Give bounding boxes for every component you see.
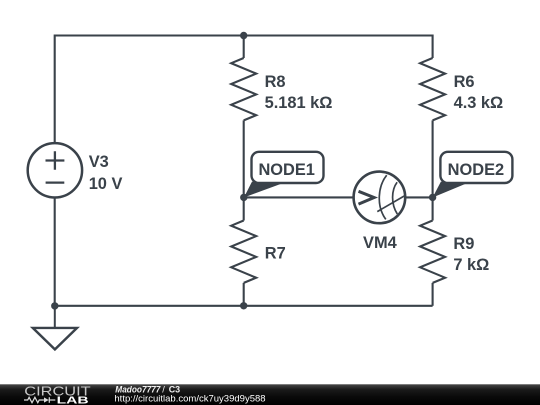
wire voltmeter right to NODE2	[405, 196, 432, 198]
junction node NODE1	[240, 194, 247, 201]
node NODE1 flag	[244, 152, 324, 198]
svg-text:http://circuitlab.com/ck7uy39d: http://circuitlab.com/ck7uy39d9y588	[114, 393, 265, 404]
wire NODE1 to voltmeter left	[244, 196, 354, 198]
footer credit text	[115, 384, 180, 394]
node NODE2 flag	[433, 152, 513, 198]
wire top-right (top node to R6 top lead)	[244, 36, 433, 59]
svg-text:7 kΩ: 7 kΩ	[453, 256, 489, 274]
CircuitLab logo wordmark	[24, 384, 90, 405]
svg-text:NODE2: NODE2	[448, 161, 504, 179]
junction node NODE2	[429, 194, 436, 201]
resistor R7	[231, 197, 256, 305]
junction bottom-middle	[240, 302, 247, 309]
svg-text:LAB: LAB	[57, 394, 89, 405]
ground	[33, 306, 77, 349]
junction ground node	[51, 302, 58, 309]
logo schematic squiggle (resistor + diode)	[24, 397, 55, 403]
svg-text:V3: V3	[89, 153, 109, 171]
resistor R9	[420, 197, 445, 305]
voltmeter VM4	[354, 172, 406, 224]
resistor R8	[231, 36, 256, 198]
wire top-left (V3 top to top node)	[55, 36, 244, 144]
junction top node	[240, 32, 247, 39]
svg-text:NODE1: NODE1	[258, 161, 314, 179]
svg-text:10 V: 10 V	[89, 175, 123, 193]
svg-text:VM4: VM4	[363, 234, 398, 252]
svg-text:R8: R8	[265, 73, 286, 91]
footer bar	[0, 384, 540, 405]
svg-text:R7: R7	[265, 244, 286, 262]
svg-text:4.3 kΩ: 4.3 kΩ	[454, 94, 504, 112]
svg-text:R6: R6	[454, 73, 475, 91]
label R6 value	[454, 73, 504, 112]
label V3 value	[89, 153, 123, 193]
label R8 value	[265, 73, 333, 112]
voltage source V3	[28, 143, 82, 197]
wire V3 bottom to ground junction	[54, 197, 56, 306]
wire bottom rail	[55, 305, 433, 307]
resistor R6	[420, 58, 445, 197]
svg-text:R9: R9	[453, 235, 474, 253]
svg-text:5.181 kΩ: 5.181 kΩ	[265, 94, 333, 112]
label R9 value	[453, 235, 489, 274]
